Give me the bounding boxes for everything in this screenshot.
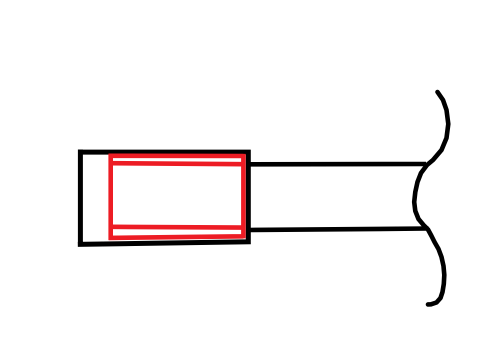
red inner bottom line [111,225,244,230]
wire top conductor [248,162,426,167]
red inner top line [111,163,244,164]
wire bottom conductor [249,229,429,231]
black outer rectangle (connector body) [78,150,251,247]
wire break squiggle [414,92,448,304]
red crimp barrel outer rectangle [109,154,244,240]
